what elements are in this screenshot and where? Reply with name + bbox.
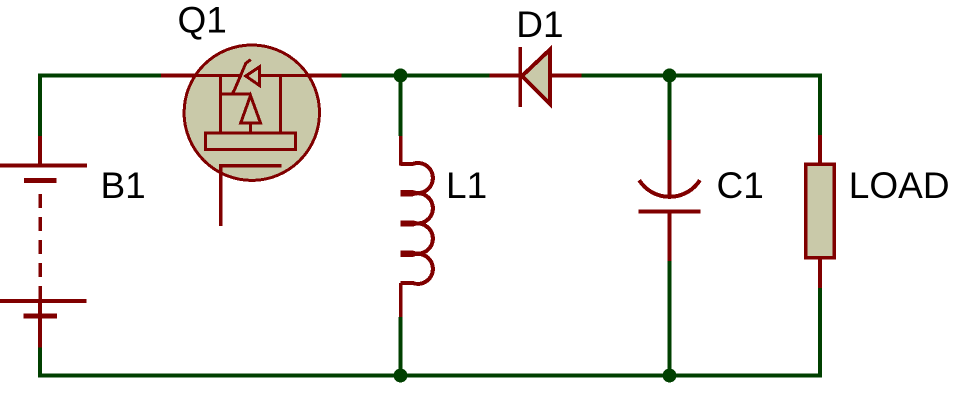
mosfet Q1 channel line left — [183, 74, 242, 77]
mosfet Q1 diode stem — [249, 123, 252, 134]
wire L1 bottom green — [399, 317, 403, 376]
resistor LOAD body — [806, 164, 835, 258]
capacitor C1 pin top — [668, 140, 672, 197]
resistor LOAD pin bottom — [818, 256, 822, 288]
mosfet Q1 gate plate and pin — [221, 166, 282, 227]
capacitor C1 curved plate — [639, 180, 700, 197]
inductor L1 pin top — [399, 136, 403, 166]
wire top green middle — [341, 74, 489, 78]
battery B1 short plate top — [24, 178, 57, 183]
mosfet Q1 body circle — [184, 45, 319, 180]
mosfet Q1 body diode triangle — [241, 96, 261, 124]
mosfet Q1 pin drain red left — [161, 74, 200, 78]
mosfet Q1 pin source red right — [305, 74, 341, 78]
diode D1 pin right — [550, 74, 581, 78]
diode D1 triangle — [522, 50, 550, 105]
svg-text:D1: D1 — [516, 4, 563, 45]
battery B1 short plate bottom — [24, 314, 57, 319]
svg-text:LOAD: LOAD — [849, 165, 950, 206]
mosfet Q1 connector line — [221, 92, 251, 95]
inductor L1 pin bottom — [399, 283, 403, 317]
svg-text:C1: C1 — [717, 165, 764, 206]
wire C1 bottom green — [668, 261, 672, 376]
wire top green left — [40, 76, 161, 137]
mosfet Q1 substrate bar — [206, 133, 296, 150]
inductor L1 coil — [401, 163, 433, 284]
mosfet Q1 channel line right — [260, 74, 322, 77]
mosfet Q1 gate arrow — [246, 67, 260, 86]
mosfet Q1 slanted gate line — [233, 60, 251, 94]
capacitor C1 flat plate — [638, 209, 700, 213]
resistor LOAD pin top — [818, 135, 822, 166]
wire C1 top green — [668, 76, 672, 141]
node junction dot L1 bottom — [394, 369, 408, 383]
svg-text:B1: B1 — [101, 165, 146, 206]
battery B1 pin bottom — [38, 316, 42, 348]
svg-text:L1: L1 — [446, 165, 487, 206]
diode D1 cathode bar — [518, 47, 522, 107]
wire L1 top green — [399, 76, 403, 137]
battery B1 dashed link — [38, 194, 42, 299]
battery B1 long plate top — [0, 164, 87, 168]
battery B1 pin top — [38, 136, 42, 167]
mosfet Q1 right vertical — [279, 76, 282, 135]
capacitor C1 pin bottom — [668, 211, 672, 261]
node junction dot C1 top — [663, 69, 677, 83]
battery B1 long plate bottom — [0, 299, 86, 303]
wire top green right — [581, 76, 820, 135]
node junction dot L1 top — [394, 69, 408, 83]
mosfet Q1 left vertical — [219, 76, 222, 135]
svg-text:Q1: Q1 — [178, 0, 227, 41]
node junction dot C1 bottom — [663, 369, 677, 383]
diode D1 pin left — [489, 74, 521, 78]
wire bottom green — [40, 288, 820, 376]
battery B1 plate connector — [38, 301, 42, 318]
